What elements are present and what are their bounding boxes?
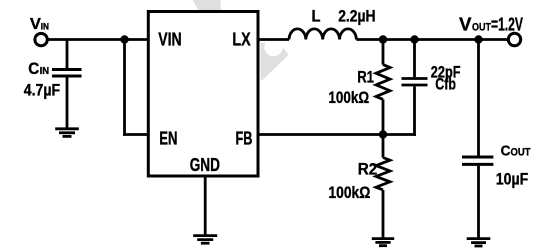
label 2.2µH bbox=[338, 6, 375, 25]
svg-text:IN: IN bbox=[40, 65, 50, 77]
label 10µF bbox=[496, 170, 528, 189]
label COUT bbox=[501, 142, 531, 159]
ground (Cin) bbox=[55, 129, 79, 137]
svg-text:R1: R1 bbox=[357, 68, 374, 87]
svg-text:2.2µH: 2.2µH bbox=[338, 6, 375, 25]
wire : output rail bbox=[356, 38, 508, 41]
watermark swoosh (right of IC) bbox=[261, 43, 289, 80]
node Cfb top junction bbox=[410, 35, 418, 43]
pin GND bbox=[190, 155, 220, 175]
resistor R2 bbox=[376, 158, 390, 190]
pin VIN bbox=[158, 29, 182, 49]
svg-text:L: L bbox=[312, 6, 321, 25]
wire : Cfb bottom bbox=[413, 86, 416, 135]
pin FB bbox=[236, 129, 253, 149]
label R1 bbox=[357, 68, 374, 87]
svg-text:Cfb: Cfb bbox=[435, 75, 456, 94]
label 4.7µF bbox=[24, 80, 60, 99]
wire : GND pin bbox=[204, 176, 207, 236]
svg-text:V: V bbox=[459, 14, 472, 34]
wire : EN branch horizontal bbox=[123, 133, 148, 136]
node FB junction bbox=[379, 130, 387, 138]
svg-text:C: C bbox=[501, 142, 511, 159]
svg-text:R2: R2 bbox=[358, 159, 378, 178]
svg-text:OUT: OUT bbox=[472, 22, 491, 34]
node VOUT terminal bbox=[508, 33, 520, 45]
wire : Cfb top bbox=[413, 40, 416, 78]
svg-text:100kΩ: 100kΩ bbox=[328, 88, 369, 107]
wire : Cin branch bottom bbox=[66, 77, 69, 128]
svg-text:=1.2V: =1.2V bbox=[491, 14, 523, 34]
node Cout junction bbox=[474, 35, 482, 43]
svg-text:IN: IN bbox=[41, 22, 49, 33]
svg-text:OUT: OUT bbox=[511, 146, 531, 158]
ground (Cout) bbox=[467, 239, 491, 246]
wire : EN branch vertical bbox=[123, 40, 126, 136]
node EN junction bbox=[120, 35, 128, 43]
wire : Cout top bbox=[477, 40, 480, 156]
pin LX bbox=[232, 29, 250, 49]
svg-text:C: C bbox=[28, 59, 39, 78]
wire : R2 top bbox=[382, 135, 385, 158]
svg-text:100kΩ: 100kΩ bbox=[328, 183, 370, 202]
watermark band (top) bbox=[193, 0, 221, 13]
ground (R2) bbox=[372, 239, 394, 246]
wire : R1 bottom bbox=[382, 99, 385, 134]
svg-text:EN: EN bbox=[159, 129, 177, 149]
wire : Cout bottom bbox=[477, 166, 480, 239]
IC U1 : DC-DC converter box bbox=[148, 12, 258, 177]
node R1 top junction bbox=[379, 35, 387, 43]
wire : R1 top bbox=[382, 40, 385, 65]
node VIN label bbox=[30, 16, 49, 33]
label CIN bbox=[28, 59, 49, 78]
capacitor CIN bbox=[52, 70, 82, 77]
node VIN terminal bbox=[35, 33, 47, 45]
wire : R2 bottom bbox=[382, 190, 385, 239]
wire : input rail bbox=[47, 38, 148, 41]
svg-text:LX: LX bbox=[232, 29, 250, 49]
wire : Cin branch top bbox=[66, 40, 69, 69]
label Cfb bbox=[435, 75, 456, 94]
svg-text:GND: GND bbox=[190, 155, 220, 175]
label R2 bbox=[358, 159, 378, 178]
wire : FB rail bbox=[258, 133, 416, 136]
capacitor Cfb bbox=[402, 79, 428, 86]
inductor L bbox=[289, 29, 356, 40]
wire : LX to inductor bbox=[258, 38, 289, 41]
svg-text:10µF: 10µF bbox=[496, 170, 528, 189]
svg-text:FB: FB bbox=[236, 129, 253, 149]
label VOUT=1.2V bbox=[459, 14, 523, 34]
resistor R1 bbox=[376, 65, 390, 100]
pin EN bbox=[159, 129, 177, 149]
svg-text:4.7µF: 4.7µF bbox=[24, 80, 60, 99]
ground (GND pin) bbox=[193, 236, 217, 244]
label 100kΩ (R2) bbox=[328, 183, 370, 202]
svg-text:V: V bbox=[30, 16, 41, 33]
capacitor COUT bbox=[462, 157, 493, 164]
label 22pF bbox=[431, 62, 461, 81]
label L bbox=[312, 6, 321, 25]
svg-text:VIN: VIN bbox=[158, 29, 182, 49]
watermark notch bbox=[264, 38, 282, 56]
label 100kΩ (R1) bbox=[328, 88, 369, 107]
